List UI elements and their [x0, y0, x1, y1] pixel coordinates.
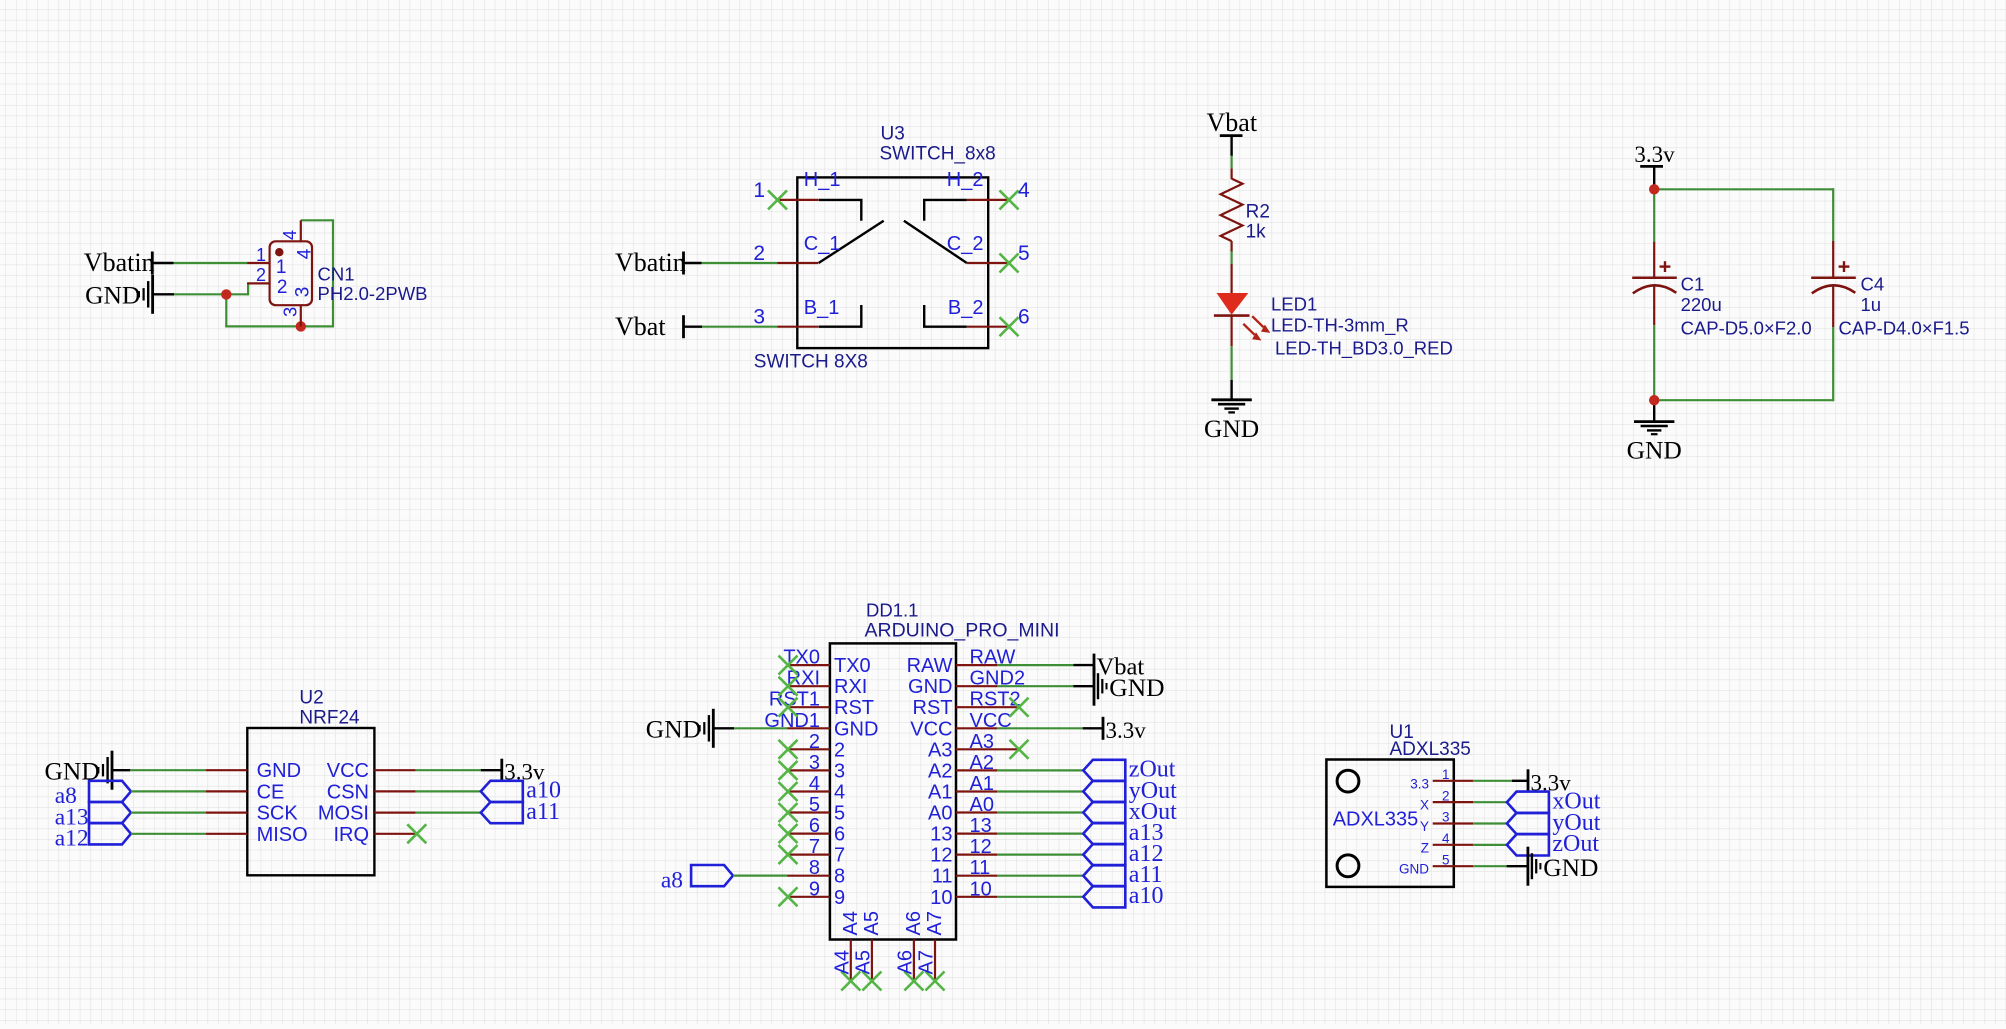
svg-text:GND: GND — [1543, 853, 1598, 882]
wire U1 3.3 to 3.3v — [1473, 780, 1527, 782]
U3 pin 1 — [753, 179, 818, 210]
LED1 name LED-TH-3mm_R — [1271, 314, 1409, 336]
U3 pin 3 — [753, 306, 818, 329]
net port a11 (U2.MOSI) — [481, 799, 560, 825]
wire U1 Y to yOut — [1473, 822, 1507, 824]
no-connect U2.IRQ — [407, 824, 426, 843]
wire a8 to DD1.1 pin 8 — [733, 874, 788, 876]
wire Vbatin to U3 pin 2 — [684, 262, 778, 264]
capacitor C4 — [1811, 241, 1856, 327]
svg-text:9: 9 — [834, 887, 845, 909]
svg-text:2: 2 — [277, 277, 288, 298]
no-connect DD1.1 A3 — [1010, 740, 1029, 759]
svg-text:a10: a10 — [1129, 883, 1164, 909]
wire DD1.1 to a11 — [997, 875, 1083, 877]
wire DD1.1 to a12 — [997, 853, 1083, 855]
svg-text:LED-TH_BD3.0_RED: LED-TH_BD3.0_RED — [1275, 338, 1453, 360]
svg-text:Vbat: Vbat — [1207, 108, 1258, 137]
svg-text:a12: a12 — [55, 826, 89, 852]
svg-text:A3: A3 — [928, 739, 952, 761]
svg-text:A5: A5 — [861, 911, 883, 935]
svg-text:3: 3 — [281, 307, 301, 317]
U1 label ADXL335 — [1333, 809, 1419, 831]
svg-text:Vbatin: Vbatin — [615, 248, 686, 277]
CN1 reference designator — [318, 263, 355, 284]
svg-text:2: 2 — [256, 265, 266, 285]
R2 value 1k — [1246, 221, 1267, 242]
svg-text:NRF24: NRF24 — [299, 708, 360, 729]
svg-text:1k: 1k — [1246, 221, 1267, 242]
wire 3.3v rail — [1653, 188, 1833, 243]
U1 name ADXL335 — [1390, 739, 1471, 760]
svg-text:X: X — [1420, 798, 1429, 813]
svg-text:a8: a8 — [661, 867, 683, 893]
U3 value SWITCH 8X8 — [754, 352, 868, 373]
power flag Vbat (U3) — [615, 312, 684, 341]
svg-text:220u: 220u — [1681, 294, 1722, 315]
svg-text:3: 3 — [293, 287, 314, 298]
wire U1 X to xOut — [1473, 801, 1507, 803]
power flag Vbat (R2) — [1207, 108, 1258, 156]
junction at GND node — [1649, 395, 1659, 405]
U1 reference designator — [1390, 722, 1414, 743]
ground GND (LED1) — [1204, 400, 1259, 443]
U1 pin names and numbers — [1399, 767, 1450, 877]
svg-text:Vbat: Vbat — [615, 312, 666, 341]
svg-text:CAP-D5.0×F2.0: CAP-D5.0×F2.0 — [1681, 317, 1812, 338]
svg-text:4: 4 — [834, 782, 845, 804]
svg-text:LED-TH-3mm_R: LED-TH-3mm_R — [1271, 314, 1409, 336]
svg-text:1u: 1u — [1861, 294, 1882, 315]
svg-text:A0: A0 — [928, 803, 952, 825]
svg-text:GND: GND — [257, 760, 301, 782]
DD1.1 bottom no-connect marks — [841, 972, 944, 991]
svg-text:RAW: RAW — [907, 655, 953, 677]
svg-text:10: 10 — [930, 887, 952, 909]
svg-text:MOSI: MOSI — [318, 803, 369, 825]
ground flag GND (DD1.1 right) — [1094, 667, 1165, 706]
DD1.1 bottom outer pin labels — [831, 950, 937, 974]
wire GND to DD1.1 GND — [713, 727, 787, 729]
svg-text:ADXL335: ADXL335 — [1390, 739, 1471, 760]
svg-text:3.3v: 3.3v — [1106, 718, 1147, 743]
net port a13 (U2.SCK) — [55, 802, 131, 830]
C1 value 220u — [1681, 294, 1722, 315]
svg-text:A6: A6 — [894, 950, 916, 974]
wire U2.VCC to 3.3v — [416, 769, 501, 771]
svg-text:PH2.0-2PWB: PH2.0-2PWB — [318, 283, 428, 304]
svg-text:6: 6 — [834, 824, 845, 846]
wire DD1.1 VCC to 3.3v — [997, 727, 1102, 729]
U3 pin 2 — [753, 242, 818, 265]
svg-text:3.3: 3.3 — [1410, 776, 1429, 791]
wire DD1.1 to yOut — [997, 790, 1083, 792]
svg-text:Vbatin: Vbatin — [84, 248, 155, 277]
wire GND to CN1 pin 2 — [153, 283, 249, 295]
IC U1 body — [1326, 760, 1453, 887]
svg-text:DD1.1: DD1.1 — [866, 600, 918, 621]
C4 value 1u — [1861, 294, 1882, 315]
svg-text:U3: U3 — [881, 124, 905, 145]
svg-text:Z: Z — [1421, 840, 1429, 855]
net port yOut (DD1.1) — [1083, 778, 1177, 804]
svg-text:1: 1 — [256, 245, 266, 265]
svg-text:ADXL335: ADXL335 — [1333, 809, 1419, 831]
connector CN1 body — [270, 241, 312, 305]
svg-text:4: 4 — [280, 230, 300, 240]
resistor R2 — [1221, 168, 1243, 251]
U2 pin names — [257, 760, 369, 846]
net port yOut (U1) — [1507, 810, 1601, 836]
svg-text:ARDUINO_PRO_MINI: ARDUINO_PRO_MINI — [865, 620, 1060, 642]
U2 name NRF24 — [299, 708, 360, 729]
ground flag GND (U2) — [45, 751, 113, 790]
svg-text:A2: A2 — [928, 760, 952, 782]
svg-text:GND: GND — [1109, 673, 1164, 702]
CN1 pin 4 — [300, 220, 302, 242]
svg-text:VCC: VCC — [910, 718, 952, 740]
power flag 3.3v (U1) — [1528, 769, 1571, 795]
svg-text:1: 1 — [276, 257, 287, 278]
DD1.1 bottom inner pin names — [840, 911, 946, 935]
power flag Vbatin (CN1) — [84, 248, 155, 277]
svg-text:H_1: H_1 — [804, 169, 841, 191]
wire Vbat to U3 pin 3 — [684, 326, 778, 328]
svg-text:C_2: C_2 — [947, 233, 984, 255]
CN1 pin number labels — [256, 230, 316, 317]
svg-text:A7: A7 — [916, 950, 938, 974]
IC U2 body — [247, 728, 374, 875]
wire U1 Z to zOut — [1473, 844, 1507, 846]
svg-text:A4: A4 — [831, 950, 853, 974]
DD1.1 left no-connect marks — [779, 656, 798, 907]
U3 pin names — [804, 169, 984, 319]
svg-text:B_1: B_1 — [804, 297, 840, 319]
svg-text:U2: U2 — [299, 688, 323, 709]
svg-text:B_2: B_2 — [948, 297, 984, 319]
net port a10 (U2.CSN) — [481, 778, 561, 804]
svg-text:7: 7 — [834, 845, 845, 867]
svg-text:8: 8 — [834, 866, 845, 888]
svg-text:IRQ: IRQ — [333, 824, 369, 846]
svg-text:13: 13 — [930, 824, 952, 846]
net port a12 (DD1.1) — [1083, 841, 1163, 867]
ground flag GND (CN1) — [85, 275, 153, 314]
svg-text:C_1: C_1 — [804, 233, 841, 255]
CN1 pin 1 — [247, 262, 270, 264]
IC DD1.1 body — [830, 643, 956, 939]
svg-text:2: 2 — [753, 242, 765, 265]
DD1.1 left pins — [788, 665, 830, 897]
power flag 3.3v (U2) — [502, 759, 545, 785]
DD1.1 bottom pins A4 A5 A6 A7 — [851, 940, 935, 981]
svg-text:CAP-D4.0×F1.5: CAP-D4.0×F1.5 — [1839, 317, 1970, 338]
wire U1 GND to GND — [1473, 865, 1528, 867]
U3 pin 6 — [967, 306, 1030, 337]
svg-text:A6: A6 — [903, 911, 925, 935]
ground GND (C1/C4) — [1627, 422, 1682, 465]
C4 reference designator — [1861, 273, 1885, 294]
C1 reference designator — [1681, 273, 1705, 294]
U2 left pins — [206, 770, 247, 834]
power flag Vbatin (U3) — [615, 248, 686, 277]
net port a11 (DD1.1) — [1083, 862, 1162, 888]
LED1 diode — [1214, 264, 1250, 347]
wire LED1 to GND — [1230, 346, 1232, 400]
U2 right pins — [374, 770, 416, 834]
net port a8 (DD1.1 pin8) — [661, 865, 733, 893]
svg-text:3: 3 — [834, 760, 845, 782]
no-connect DD1.1 RST2 — [1010, 698, 1029, 717]
wire a12 to U2.MISO — [131, 833, 206, 835]
wire U2.CSN to a10 — [416, 790, 481, 792]
wire GND branch to CN1 pin 3 and pin 4 — [225, 220, 334, 327]
svg-text:11: 11 — [932, 866, 953, 888]
DD1.1 pin names — [834, 655, 953, 909]
svg-text:A1: A1 — [928, 782, 952, 804]
net port zOut (U1) — [1507, 831, 1599, 857]
svg-text:A5: A5 — [852, 950, 874, 974]
U1 pins — [1433, 781, 1474, 866]
svg-text:CN1: CN1 — [318, 263, 355, 284]
power flag Vbat (DD1.1) — [1094, 654, 1144, 681]
wire DD1.1 to zOut — [997, 769, 1083, 771]
LED1 reference designator — [1271, 294, 1317, 315]
DD1.1 right pins — [956, 665, 1018, 897]
svg-text:3.3v: 3.3v — [1634, 142, 1675, 167]
svg-text:RST: RST — [834, 697, 874, 719]
LED1 value LED-TH_BD3.0_RED — [1275, 338, 1453, 360]
wire DD1.1 RAW to Vbat — [997, 664, 1094, 666]
wire DD1.1 GND2 to GND — [997, 685, 1094, 687]
svg-text:VCC: VCC — [327, 760, 369, 782]
wire GND to U2.GND — [112, 769, 206, 771]
junction at CN1 pin 3 — [296, 321, 306, 331]
svg-text:CE: CE — [257, 781, 285, 803]
U3 pin 5 — [967, 242, 1030, 273]
DD1.1 name ARDUINO_PRO_MINI — [865, 620, 1060, 642]
ground flag GND (DD1.1) — [646, 709, 714, 748]
svg-text:GND: GND — [646, 715, 701, 744]
U3 reference designator — [881, 124, 905, 145]
junction at GND wire — [221, 289, 231, 299]
svg-text:C1: C1 — [1681, 273, 1705, 294]
svg-text:RST: RST — [913, 697, 953, 719]
svg-text:GND: GND — [1627, 436, 1682, 465]
wire a13 to U2.SCK — [131, 811, 206, 813]
U3 pin 4 — [967, 179, 1030, 210]
svg-text:C4: C4 — [1861, 273, 1885, 294]
svg-text:Y: Y — [1420, 819, 1429, 834]
CN1 pin 3 — [300, 305, 302, 327]
svg-text:RXI: RXI — [834, 676, 867, 698]
wire capacitors to GND — [1653, 325, 1833, 421]
svg-text:3: 3 — [753, 306, 765, 329]
ground flag GND (U1) — [1528, 847, 1599, 886]
U3 name SWITCH_8x8 — [880, 144, 996, 165]
svg-text:2: 2 — [834, 739, 845, 761]
svg-text:4: 4 — [1018, 179, 1030, 202]
net port a8 (U2.CE) — [55, 781, 131, 809]
CN1 pin 2 — [247, 282, 270, 284]
C4 footprint CAP-D4.0×F1.5 — [1839, 317, 1970, 338]
DD1.1 reference designator — [866, 600, 918, 621]
wire a8 to U2.CE — [131, 790, 206, 792]
DD1.1 outer pin labels right — [970, 647, 1026, 901]
svg-text:GND: GND — [1399, 862, 1429, 877]
net port zOut (DD1.1) — [1083, 757, 1175, 783]
svg-text:LED1: LED1 — [1271, 294, 1317, 315]
svg-text:SCK: SCK — [257, 803, 299, 825]
net port a12 (U2.MISO) — [55, 823, 131, 852]
wire DD1.1 to a10 — [997, 896, 1083, 898]
svg-text:6: 6 — [1018, 306, 1030, 329]
net port a13 (DD1.1) — [1083, 820, 1163, 846]
svg-text:GND: GND — [834, 718, 878, 740]
wire DD1.1 to a13 — [997, 832, 1083, 834]
svg-text:A4: A4 — [840, 911, 862, 935]
svg-text:A7: A7 — [924, 911, 946, 935]
power flag 3.3v (DD1.1) — [1103, 717, 1146, 743]
junction at 3.3v node — [1649, 184, 1659, 194]
svg-text:H_2: H_2 — [947, 169, 984, 191]
svg-text:4: 4 — [295, 248, 316, 259]
DD1.1 outer pin labels left — [764, 647, 820, 901]
svg-text:12: 12 — [930, 845, 952, 867]
power flag 3.3v (C1) — [1634, 142, 1675, 188]
wire Vbatin to CN1 pin 1 — [152, 262, 247, 264]
svg-text:CSN: CSN — [327, 781, 369, 803]
svg-text:SWITCH_8x8: SWITCH_8x8 — [880, 144, 996, 165]
net port xOut (U1) — [1507, 789, 1601, 815]
svg-text:SWITCH 8X8: SWITCH 8X8 — [754, 352, 868, 373]
capacitor C1 — [1632, 242, 1677, 325]
wire DD1.1 to xOut — [997, 811, 1083, 813]
C1 footprint CAP-D5.0×F2.0 — [1681, 317, 1812, 338]
U2 reference designator — [299, 688, 323, 709]
svg-text:GND: GND — [908, 676, 952, 698]
svg-text:5: 5 — [834, 803, 845, 825]
switch U3 body — [797, 177, 988, 348]
svg-text:R2: R2 — [1246, 201, 1270, 222]
switch U3 contacts — [819, 200, 967, 327]
CN1 value PH2.0-2PWB — [318, 283, 428, 304]
svg-text:GND: GND — [1204, 414, 1259, 443]
svg-text:MISO: MISO — [257, 824, 308, 846]
R2 reference designator — [1246, 201, 1270, 222]
wire Vbat to R2 — [1230, 156, 1232, 169]
net port xOut (DD1.1) — [1083, 799, 1177, 825]
wire U2.MOSI to a11 — [416, 811, 481, 813]
svg-text:1: 1 — [753, 179, 765, 202]
wire R2 to LED1 — [1230, 251, 1232, 263]
svg-text:a11: a11 — [526, 799, 560, 825]
net port a10 (DD1.1) — [1083, 883, 1163, 909]
svg-text:GND: GND — [85, 281, 140, 310]
svg-text:TX0: TX0 — [834, 655, 871, 677]
svg-text:5: 5 — [1018, 242, 1030, 265]
LED1 emission arrows — [1243, 316, 1270, 340]
